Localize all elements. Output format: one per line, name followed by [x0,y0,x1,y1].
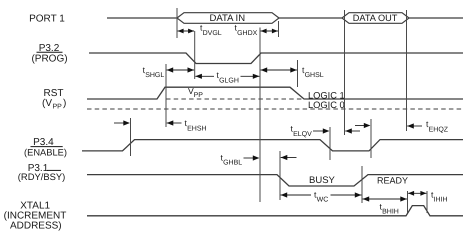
svg-text:PP: PP [194,92,204,99]
svg-text:(V: (V [42,98,52,109]
svg-text:READY: READY [377,176,408,186]
svg-text:GHDX: GHDX [237,30,258,37]
svg-text:PP: PP [53,103,63,110]
svg-text:BHIH: BHIH [382,209,399,216]
svg-text:GHSL: GHSL [305,72,324,79]
svg-text:BUSY: BUSY [309,175,336,186]
svg-text:DATA OUT: DATA OUT [353,13,398,23]
svg-text:DATA IN: DATA IN [210,13,246,24]
svg-text:EHQZ: EHQZ [429,126,449,133]
svg-text:ADDRESS): ADDRESS) [10,220,62,231]
svg-text:GHBL: GHBL [223,160,242,167]
svg-text:ELQV: ELQV [293,131,312,138]
svg-text:): ) [63,98,66,109]
svg-text:(RDY/BSY): (RDY/BSY) [18,171,65,182]
svg-text:IHIH: IHIH [434,197,448,204]
svg-text:PORT 1: PORT 1 [29,13,65,24]
svg-text:EHSH: EHSH [187,125,206,132]
svg-text:WC: WC [317,197,329,204]
svg-text:(ENABLE): (ENABLE) [24,148,67,158]
svg-text:(PROG): (PROG) [31,53,67,64]
svg-text:LOGIC 0: LOGIC 0 [308,100,345,110]
svg-text:SHGL: SHGL [145,72,164,79]
svg-text:GLGH: GLGH [219,77,239,84]
svg-text:DVGL: DVGL [203,30,222,37]
